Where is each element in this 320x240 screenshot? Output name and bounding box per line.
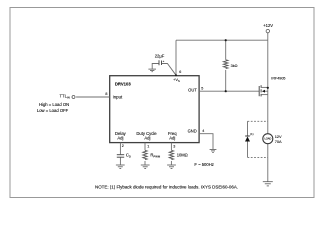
svg-text:Low = Load OFF: Low = Load OFF bbox=[37, 108, 69, 113]
svg-text:6: 6 bbox=[179, 70, 181, 74]
svg-text:2: 2 bbox=[122, 144, 124, 148]
svg-text:12V: 12V bbox=[275, 134, 282, 139]
svg-text:LOAD: LOAD bbox=[264, 137, 271, 141]
svg-text:70A: 70A bbox=[275, 139, 282, 144]
svg-text:DRV103: DRV103 bbox=[115, 82, 131, 87]
svg-text:GND: GND bbox=[188, 129, 197, 134]
svg-text:10MΩ: 10MΩ bbox=[177, 152, 188, 157]
svg-text:Adj: Adj bbox=[117, 136, 123, 141]
svg-text:4: 4 bbox=[202, 129, 204, 133]
svg-text:F ~ 500Hz: F ~ 500Hz bbox=[194, 162, 213, 167]
svg-text:8: 8 bbox=[105, 92, 107, 96]
svg-text:Adj: Adj bbox=[169, 136, 175, 141]
svg-text:3: 3 bbox=[173, 145, 175, 149]
svg-text:Input: Input bbox=[113, 95, 123, 100]
svg-text:1: 1 bbox=[147, 145, 149, 149]
svg-text:+12V: +12V bbox=[263, 23, 273, 28]
svg-text:(1): (1) bbox=[250, 132, 253, 136]
svg-text:22µF: 22µF bbox=[155, 53, 165, 58]
svg-text:IRF4905: IRF4905 bbox=[271, 77, 285, 81]
svg-text:5: 5 bbox=[201, 87, 203, 91]
svg-text:NOTE: (1) Flyback diode requir: NOTE: (1) Flyback diode required for ind… bbox=[95, 184, 238, 189]
svg-text:+: + bbox=[163, 59, 165, 63]
svg-text:3kΩ: 3kΩ bbox=[231, 64, 238, 68]
svg-text:High = Load ON: High = Load ON bbox=[39, 102, 69, 107]
svg-text:Adj: Adj bbox=[144, 136, 150, 141]
svg-text:OUT: OUT bbox=[188, 88, 197, 93]
